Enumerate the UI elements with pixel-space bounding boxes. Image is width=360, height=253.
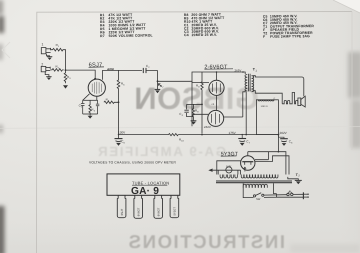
grid cap dot 6SJ7 xyxy=(94,78,96,80)
scan shadow left top xyxy=(0,0,4,133)
svg-text:5Y3GT: 5Y3GT xyxy=(221,151,239,157)
node B+ field xyxy=(278,134,280,136)
input jack 1 xyxy=(41,48,50,54)
resistor R1 xyxy=(51,48,65,51)
filament winding drops xyxy=(218,170,240,174)
scan shadow left bottom xyxy=(0,206,5,253)
tube 6SJ7 envelope xyxy=(88,79,105,96)
switch SW xyxy=(253,193,264,197)
svg-text:175V: 175V xyxy=(229,131,237,135)
input jack 2 xyxy=(41,66,50,71)
5Y3 internals xyxy=(242,162,253,172)
output transformer T1 secondary xyxy=(252,76,254,92)
pilot lamp xyxy=(226,167,232,173)
paper fold line xyxy=(0,127,360,129)
svg-text:6.3V: 6.3V xyxy=(226,165,231,168)
cathode lead 6SJ7 xyxy=(96,96,98,100)
6SJ7 internal electrodes xyxy=(92,82,101,94)
paper corner top right xyxy=(333,0,360,13)
hum coil loops xyxy=(282,93,298,104)
plate lead bottom 6V6 xyxy=(224,116,243,118)
capacitor C6 to ground xyxy=(278,135,287,146)
ground 6V6 cathode xyxy=(191,121,197,125)
T2 center tap ground wire xyxy=(288,177,299,180)
svg-text:6V6GT: 6V6GT xyxy=(137,207,140,216)
plate rail xyxy=(102,69,142,71)
AC line lower xyxy=(264,194,303,198)
ground under jack 2 xyxy=(45,72,51,80)
svg-text:1090 Ω: 1090 Ω xyxy=(261,105,268,108)
speaker field coil box xyxy=(256,100,278,135)
AC plug xyxy=(303,192,308,199)
T1 primary lead wire xyxy=(243,72,245,74)
field coil winding bumps xyxy=(258,100,274,101)
fuse F xyxy=(287,192,293,196)
tube 5Y3 envelope xyxy=(241,156,255,170)
T2 core xyxy=(216,181,292,183)
B+ rail continues to field coil xyxy=(178,134,278,136)
2-6V6GT underline xyxy=(204,68,233,70)
grid wire bottom 6V6 xyxy=(192,113,208,115)
B+ rail bottom xyxy=(119,134,169,136)
output transformer T1 primary xyxy=(245,75,247,92)
heater arrow xyxy=(208,169,240,172)
AC line upper with fuse xyxy=(264,194,287,196)
suppressor lead 6SJ7 xyxy=(83,94,90,101)
svg-text:130V: 130V xyxy=(118,131,126,135)
wire jack1 to junction xyxy=(65,50,66,70)
B+ feed vertical to rail xyxy=(245,92,247,135)
tube location chart box xyxy=(107,174,180,195)
node pot wiper xyxy=(157,80,159,82)
svg-text:242V: 242V xyxy=(204,125,211,129)
capacitor C2 xyxy=(143,68,146,73)
T2 filament winding xyxy=(220,175,237,179)
speaker xyxy=(298,96,305,107)
wire junction to grid xyxy=(66,70,96,78)
wire wiper to 6V6 grids xyxy=(158,72,244,81)
parts list column 1 xyxy=(100,13,153,39)
svg-text:FUSE 2AMP TYPE 3AG: FUSE 2AMP TYPE 3AG xyxy=(270,34,310,38)
capacitor C7 to ground xyxy=(238,135,246,146)
svg-text:SW: SW xyxy=(256,198,261,201)
socket 6V6GT first xyxy=(134,195,143,218)
svg-text:20MFD 25 W.V.: 20MFD 25 W.V. xyxy=(192,33,218,37)
secondary bottom wire to field xyxy=(253,91,282,104)
svg-text:6SJ7: 6SJ7 xyxy=(89,63,103,69)
svg-text:500K VOLUME CONTROL: 500K VOLUME CONTROL xyxy=(109,33,153,38)
resistor R8 vertical xyxy=(201,72,203,134)
capacitor C4 xyxy=(184,104,193,116)
plate lead top 6V6 xyxy=(216,72,218,80)
primary right lead xyxy=(274,183,277,193)
watermark INSTRUCTIONS mirrored xyxy=(127,231,285,252)
socket 5Y3GT xyxy=(170,195,179,217)
svg-text:INSTRUCTIONS: INSTRUCTIONS xyxy=(127,231,285,252)
tube 6SJ7 label xyxy=(89,63,103,69)
svg-text:5Y3GT: 5Y3GT xyxy=(174,207,177,216)
filament lead upper xyxy=(217,161,241,175)
svg-text:TUBE - LOCATION: TUBE - LOCATION xyxy=(132,180,169,185)
secondary top wire to speaker xyxy=(253,76,304,97)
watermark GIBSON mirrored xyxy=(134,81,259,116)
T2 primary winding xyxy=(243,184,267,188)
svg-text:6SJ7: 6SJ7 xyxy=(120,208,124,215)
5Y3GT underline xyxy=(221,155,237,157)
cathode loop bottom 6SJ7 xyxy=(83,113,98,115)
6SJ7 label underline xyxy=(89,66,104,68)
svg-text:2: 2 xyxy=(41,62,43,66)
svg-text:GA-9 AMPLIFIER: GA-9 AMPLIFIER xyxy=(96,144,226,159)
chart title underline xyxy=(132,184,167,186)
resistor R6 vertical line xyxy=(117,70,120,138)
svg-text:F: F xyxy=(263,35,265,39)
svg-text:C4: C4 xyxy=(184,33,189,37)
resistor R2 xyxy=(50,69,64,72)
resistor R10 in rail xyxy=(169,134,179,136)
resistor R4 xyxy=(89,100,91,114)
ground under R3 xyxy=(63,85,68,88)
capacitor right leg 6SJ7 xyxy=(96,100,99,114)
pot R7 wiper arrow xyxy=(158,84,161,87)
svg-text:R7: R7 xyxy=(100,34,105,38)
T1 primary bottom lead xyxy=(243,90,245,117)
B+ wire from field box to rectifier xyxy=(277,135,279,152)
grid feed vertical xyxy=(191,81,193,126)
cathode wire to bias network xyxy=(187,103,202,105)
node R5 to R6 line xyxy=(118,101,120,103)
capacitor C1 left leg xyxy=(81,100,85,114)
wire C2 to volume pot xyxy=(146,71,158,90)
ground 6SJ7 cathode xyxy=(88,114,93,119)
resistor R5 xyxy=(104,101,119,103)
rectifier plate loop inner xyxy=(273,156,290,175)
node cathode network xyxy=(201,104,203,106)
svg-text:VOLTAGES TO CHASSIS, USING 200: VOLTAGES TO CHASSIS, USING 20000 OPV MET… xyxy=(89,161,177,165)
T1 core xyxy=(249,74,251,92)
6V6 top internals xyxy=(213,82,221,94)
resistor R9 xyxy=(192,104,194,120)
paper crease left xyxy=(2,42,10,58)
svg-text:265V: 265V xyxy=(235,69,242,73)
6V6 bottom internals xyxy=(212,112,220,124)
ground under pot R7 xyxy=(155,89,161,93)
ground under jack 1 xyxy=(47,54,53,60)
AC wire fuse to plug xyxy=(293,193,303,195)
T2 high voltage winding xyxy=(241,175,278,179)
ground T2 xyxy=(295,180,302,184)
svg-text:6V6GT: 6V6GT xyxy=(157,207,160,216)
svg-text:262V: 262V xyxy=(280,131,288,135)
scan shadow bottom right xyxy=(290,244,360,253)
rectifier plate loop outer xyxy=(248,152,286,175)
svg-text:1: 1 xyxy=(42,43,44,47)
resistor R3 xyxy=(64,70,67,83)
watermark GA-9 AMPLIFIER mirrored xyxy=(96,144,226,159)
junction dots xyxy=(118,71,279,152)
scan shadow right band xyxy=(348,52,360,148)
parts list column 3 xyxy=(263,14,315,39)
parts list column 2 xyxy=(184,12,225,37)
node junction jacks xyxy=(65,69,67,71)
capacitor C5 to ground xyxy=(115,139,123,146)
socket 6V6GT second xyxy=(154,195,163,218)
plate wires 5Y3 xyxy=(255,160,273,162)
tube 6V6 top envelope xyxy=(209,80,224,95)
socket 6SJ7 xyxy=(117,195,126,217)
grid wire top 6V6 xyxy=(192,82,209,84)
plate lead 6SJ7 xyxy=(101,70,103,79)
cathode loop top 6SJ7 xyxy=(83,99,98,101)
tube 6V6 bottom envelope xyxy=(208,110,224,126)
primary left lead to switch xyxy=(243,183,253,197)
cathode link between 6V6s xyxy=(216,95,218,110)
